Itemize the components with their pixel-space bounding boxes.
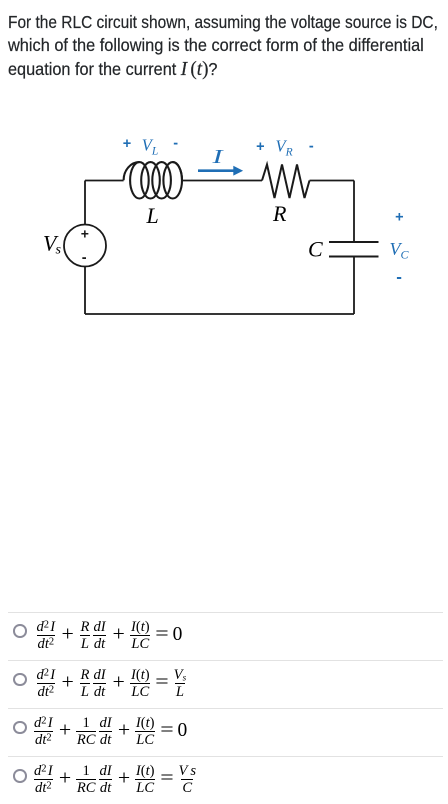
svg-text:VR: VR bbox=[276, 137, 293, 159]
svg-text:VL: VL bbox=[142, 136, 159, 158]
svg-text:Vs: Vs bbox=[43, 231, 61, 258]
svg-text:L: L bbox=[146, 203, 159, 228]
svg-text:I: I bbox=[211, 145, 224, 168]
svg-text:-: - bbox=[82, 250, 87, 266]
svg-text:VC: VC bbox=[390, 239, 410, 262]
svg-text:-: - bbox=[309, 139, 314, 155]
svg-text:-: - bbox=[173, 136, 178, 152]
svg-text:C: C bbox=[308, 237, 323, 262]
svg-text:-: - bbox=[396, 268, 402, 287]
svg-text:+: + bbox=[123, 136, 131, 152]
svg-text:+: + bbox=[256, 139, 264, 155]
svg-text:+: + bbox=[395, 210, 403, 226]
svg-text:R: R bbox=[272, 201, 287, 226]
svg-text:+: + bbox=[81, 226, 89, 242]
